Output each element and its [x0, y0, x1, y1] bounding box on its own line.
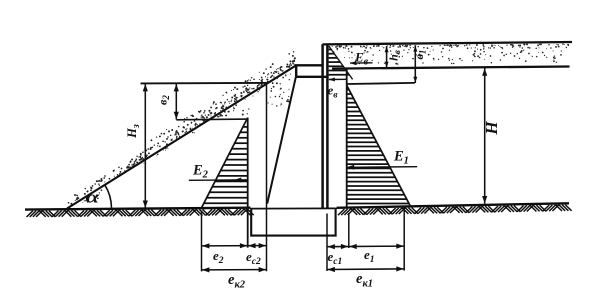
svg-text:eс1: eс1	[328, 249, 343, 267]
extension line x=327 below footing	[326, 214, 328, 272]
Ev hatch	[329, 50, 350, 75]
label Ev with underline arrow	[350, 62, 373, 64]
svg-text:e1: e1	[364, 247, 375, 265]
top line left (crest level)	[141, 82, 268, 85]
third line (bottom of load strip)	[347, 83, 415, 84]
angle arc alpha	[105, 185, 112, 208]
svg-text:в2: в2	[156, 95, 172, 105]
E1 hypotenuse	[347, 85, 411, 206]
svg-text:eк1: eк1	[356, 271, 373, 290]
embankment slope line	[67, 65, 296, 208]
svg-text:E1: E1	[393, 149, 409, 167]
extension line x=404	[403, 207, 405, 271]
Ha dimension	[144, 84, 146, 209]
surcharge stipple dots top right	[332, 43, 569, 65]
E1 left edge line	[346, 68, 348, 207]
slope stipple dots	[68, 51, 296, 205]
svg-text:H: H	[482, 121, 501, 136]
ground line right with hatch	[337, 203, 572, 215]
footing	[251, 208, 335, 236]
svg-text:eк2: eк2	[228, 272, 246, 291]
label E1 with arrow	[347, 166, 418, 169]
dimension row ek2	[202, 269, 267, 271]
stem inclined front face	[267, 77, 296, 203]
svg-text:Hз: Hз	[125, 124, 142, 139]
dimension row ek1	[327, 268, 404, 271]
label E2 with arrow	[189, 179, 248, 182]
v2 level line	[176, 118, 247, 121]
svg-text:eв: eв	[328, 83, 339, 101]
extension line x=348.8	[348, 213, 350, 248]
top surface line right	[323, 42, 573, 44]
Ev pressure triangle hypotenuse	[329, 46, 353, 79]
footing top edge	[251, 207, 335, 209]
svg-text:α: α	[86, 188, 100, 207]
E2 pressure diagram right edge / extension line	[247, 118, 249, 248]
ground line left with hatch	[25, 208, 254, 217]
E1 hatch	[347, 90, 409, 204]
svg-text:eс2: eс2	[246, 249, 261, 267]
E2 hypotenuse	[202, 118, 248, 208]
cap slab	[296, 65, 328, 77]
second surface line right (embankment top)	[332, 67, 570, 69]
extension line x=201.5	[201, 211, 203, 272]
svg-text:e2: e2	[213, 248, 224, 266]
wall back double line (front)	[321, 44, 324, 208]
H dimension	[484, 68, 486, 204]
v2 dimension	[175, 84, 177, 120]
dimension row ec1 / e1	[327, 245, 404, 248]
E2 hatch	[204, 127, 248, 203]
hv dimension	[386, 46, 388, 68]
svg-text:hв: hв	[387, 50, 403, 61]
dimension row e2 / ec2	[202, 245, 267, 247]
extension line x=266 (front top corner)	[266, 83, 268, 271]
svg-text:E2: E2	[192, 163, 209, 181]
v1 dimension	[414, 45, 416, 83]
wall back double line (rear)	[326, 44, 329, 208]
ev dimension arrow	[329, 78, 347, 80]
